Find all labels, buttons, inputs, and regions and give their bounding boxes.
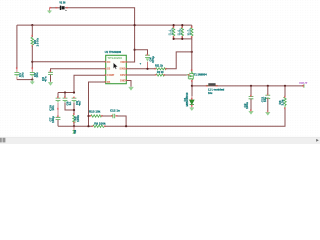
svg-text:47n: 47n	[43, 76, 47, 81]
R5 labels	[74, 115, 80, 122]
svg-text:R11 1k: R11 1k	[155, 64, 164, 67]
junction source node	[191, 85, 193, 87]
svg-text:MBR0540: MBR0540	[185, 92, 189, 106]
capacitor C7	[56, 117, 61, 126]
svg-text:10u: 10u	[263, 97, 267, 102]
resistor R5	[73, 115, 75, 123]
junction top rail / R8 col	[31, 24, 33, 26]
resistor row bottom rail	[174, 37, 192, 39]
svg-text:R10 10k: R10 10k	[89, 110, 101, 114]
capacitor colA top	[56, 93, 61, 118]
junction RC	[31, 61, 33, 63]
junction bus right	[73, 91, 75, 93]
svg-text:100k: 100k	[35, 38, 39, 47]
svg-text:ISNS: ISNS	[120, 68, 126, 71]
junction bottom rail R6	[181, 38, 183, 40]
ground under battery left	[47, 11, 51, 14]
colC cap labels	[75, 100, 81, 106]
svg-text:100n: 100n	[245, 102, 249, 109]
wire FB corner	[89, 82, 106, 126]
resistor R8	[31, 37, 34, 46]
wire COMP corner	[74, 75, 106, 92]
wire FB branch	[89, 116, 127, 126]
svg-text:100k: 100k	[188, 28, 192, 35]
C1 labels	[18, 72, 24, 77]
pin X marks	[16, 7, 304, 127]
svg-text:470p: 470p	[151, 56, 155, 63]
capacitor C2 out	[249, 86, 254, 111]
D1 labels	[183, 92, 189, 106]
svg-text:T1 2N6804: T1 2N6804	[194, 72, 207, 76]
wire source to junction	[191, 80, 193, 86]
ground under D1	[190, 108, 194, 111]
wire left vertical to C1	[16, 25, 18, 68]
resistor row top stubs	[174, 25, 192, 27]
svg-text:VB: VB	[73, 130, 77, 134]
ground under C6	[48, 83, 53, 86]
junction rail R4	[173, 24, 175, 26]
scrollbar right arrow	[316, 139, 319, 142]
svg-text:100k: 100k	[170, 28, 174, 35]
capacitor C6	[48, 72, 53, 82]
wire battery left corner	[50, 7, 61, 9]
ground under GND pin	[129, 87, 134, 90]
svg-text:10u: 10u	[208, 92, 213, 95]
C6 labels	[41, 76, 47, 81]
wire zener top	[191, 86, 193, 96]
junction C4 top	[134, 49, 136, 51]
junction out cap1	[250, 85, 252, 87]
resistor R6	[181, 27, 183, 37]
C3 labels	[33, 72, 39, 77]
net flag VB symbol	[73, 131, 76, 134]
resistor R3	[284, 97, 286, 109]
junction drain sense	[191, 51, 193, 53]
svg-text:RC: RC	[107, 61, 111, 64]
wire DRV to gate	[126, 74, 186, 76]
junction ISNS C4	[146, 68, 148, 70]
colA labels	[49, 105, 55, 123]
resistor R4	[172, 27, 174, 37]
C11 labels	[261, 96, 267, 102]
svg-text:100k: 100k	[76, 115, 80, 122]
wire C4 top corner	[135, 50, 148, 55]
junction C11	[267, 85, 269, 87]
wire drain vertical	[191, 39, 193, 72]
resistor R11 inline	[155, 68, 166, 70]
svg-text:SS: SS	[107, 68, 111, 71]
svg-text:10u: 10u	[20, 72, 24, 77]
svg-text:U1 TPS40200: U1 TPS40200	[105, 50, 122, 54]
svg-text:100p: 100p	[51, 116, 55, 123]
VOUT port tick	[303, 84, 305, 88]
svg-text:4n7: 4n7	[77, 100, 81, 106]
junction bus mid	[64, 91, 66, 93]
diode D1	[190, 100, 194, 108]
resistor row labels	[168, 28, 192, 35]
colB labels	[66, 101, 72, 105]
battery BT1	[60, 6, 67, 11]
cursor	[113, 63, 117, 69]
capacitor C3	[30, 73, 35, 80]
svg-text:GND: GND	[120, 79, 126, 82]
svg-text:COMP: COMP	[107, 74, 115, 77]
bottom long wire	[58, 108, 285, 126]
svg-text:VDD: VDD	[120, 61, 125, 64]
wire GND pin to ground	[126, 81, 131, 87]
ground under C2	[249, 111, 254, 114]
junction C3 bottom	[31, 79, 33, 81]
pin names right	[120, 61, 126, 83]
junction FB branch	[87, 115, 89, 117]
inductor L1	[206, 83, 217, 86]
junction bottom rail R4	[173, 38, 175, 40]
R8 label	[33, 38, 39, 47]
junction R3	[284, 85, 286, 87]
svg-text:10u: 10u	[35, 72, 39, 77]
capacitor colC	[72, 98, 77, 115]
junction bottom FB	[87, 125, 89, 127]
resistor R10	[91, 115, 102, 117]
junction top rail / battery vert	[134, 24, 136, 26]
capacitor C12	[113, 114, 115, 119]
svg-text:V1 36: V1 36	[59, 3, 66, 5]
svg-text:3.3k: 3.3k	[280, 99, 284, 105]
svg-text:FB: FB	[107, 81, 110, 84]
svg-text:100k: 100k	[179, 28, 183, 35]
resistor R2 inline	[156, 74, 165, 76]
junction bottom colC	[73, 125, 75, 127]
svg-text:10n: 10n	[51, 105, 55, 110]
wire RC to IC	[32, 61, 105, 63]
wire C1-C3 bottoms	[17, 79, 32, 81]
capacitor C1	[14, 73, 19, 80]
net flag VB stub	[73, 126, 75, 130]
IC U1 box	[106, 55, 127, 83]
R3 labels	[278, 99, 284, 105]
svg-text:DRV: DRV	[120, 74, 125, 77]
wire SS from corner to IC	[51, 69, 106, 72]
junction colB-colC	[73, 109, 75, 111]
wire battery to top-right corner and down to VDD	[65, 8, 135, 62]
resistor R9 inline	[93, 125, 105, 127]
svg-text:VOUT: VOUT	[299, 81, 308, 85]
junction C12 bottom	[125, 125, 127, 127]
bus comp network	[58, 92, 74, 94]
svg-text:TPS40200: TPS40200	[107, 56, 122, 60]
scrollbar track	[0, 137, 320, 144]
pin names left	[107, 61, 115, 84]
svg-text:R9 100k: R9 100k	[94, 121, 106, 125]
wire ISNS	[126, 52, 191, 69]
C4 labels	[148, 56, 155, 63]
junction rail R6	[181, 24, 183, 26]
svg-text:C12 1n: C12 1n	[110, 108, 120, 112]
scrollbar thumb	[0, 138, 2, 143]
ground under C11	[266, 112, 271, 115]
capacitor C4	[145, 55, 150, 69]
capacitor C11	[265, 86, 270, 112]
top rail	[17, 24, 192, 26]
transistor T1	[187, 71, 194, 80]
ground under C3	[30, 80, 34, 85]
wire R8 column	[31, 25, 33, 68]
wire output rail	[192, 85, 303, 87]
C2 labels	[243, 102, 249, 109]
capacitor colB	[63, 93, 74, 111]
svg-text:1n: 1n	[68, 102, 72, 106]
resistor R7	[191, 27, 193, 37]
svg-text:R2 10: R2 10	[157, 71, 164, 74]
